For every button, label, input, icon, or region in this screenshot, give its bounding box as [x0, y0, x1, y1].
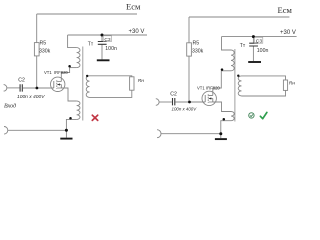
wire C3 stem top left [101, 35, 103, 41]
ground main right [215, 138, 227, 140]
transistor VT1 body circle [51, 77, 65, 91]
polarity dot lower winding right [223, 118, 226, 121]
resistor Rn load right [283, 80, 287, 90]
svg-text:Rн: Rн [289, 81, 296, 87]
capacitor C3 plates left [98, 42, 107, 45]
wire source lead right [213, 102, 231, 112]
wire upper winding bottom lead [70, 67, 77, 69]
mark correct green check [260, 112, 267, 118]
wire R5 bottom lead right [188, 56, 190, 102]
polarity dot secondary left [86, 75, 88, 77]
transformer T1 primary upper winding [77, 48, 80, 68]
svg-text:100n x 400V: 100n x 400V [17, 94, 45, 100]
mark wrong X [92, 115, 97, 120]
resistor R5 [34, 43, 39, 56]
wire Есм rail left [37, 13, 137, 15]
svg-text:Есм: Есм [278, 5, 293, 15]
wire load bottom return [90, 90, 132, 97]
svg-text:VT1: VT1 [44, 70, 52, 75]
wire +30V rail left [68, 34, 147, 36]
wire input to C2 [7, 87, 20, 89]
svg-text:Rн: Rн [138, 78, 145, 84]
svg-text:Есм: Есм [126, 2, 141, 12]
node C3 rail left [101, 34, 104, 37]
svg-text:100n x 400V: 100n x 400V [172, 107, 198, 112]
node ground junction left [65, 129, 68, 132]
capacitor C2 plates right [173, 98, 175, 105]
wire drain connection [61, 68, 69, 82]
wire ground stem left [65, 130, 67, 137]
svg-text:330k: 330k [39, 48, 51, 54]
svg-text:R5: R5 [40, 40, 47, 46]
transformer T2 core [234, 49, 236, 122]
svg-text:VT1: VT1 [197, 86, 205, 91]
ground C3 right [248, 61, 261, 63]
wire R5 top lead right [188, 17, 190, 43]
node gate right [188, 101, 191, 104]
svg-text:Тт: Тт [240, 43, 246, 49]
wire lower winding bottom lead [66, 119, 76, 130]
svg-text:100n: 100n [257, 48, 269, 54]
svg-text:100n: 100n [105, 46, 117, 52]
node C3 rail right [252, 35, 255, 38]
wire C3 stem top right [252, 37, 254, 44]
wire secondary top rail to load [90, 76, 132, 77]
node ground junction right [219, 132, 222, 135]
svg-text:+30 V: +30 V [280, 30, 296, 36]
input terminal top left [4, 85, 7, 92]
resistor R5 right [187, 43, 192, 56]
wire source lead [61, 88, 76, 101]
polarity dot secondary right [237, 75, 239, 77]
label C3 box left [103, 36, 111, 42]
transformer T1 secondary winding [86, 76, 89, 98]
transistor VT1 substrate arrow right [209, 97, 212, 99]
transformer T1 core [82, 47, 84, 121]
polarity dot upper winding right [221, 68, 224, 71]
svg-text:IRF820: IRF820 [54, 70, 68, 75]
svg-text:IRF820: IRF820 [206, 86, 220, 91]
wire input to C2 right [159, 101, 172, 103]
wire C2 to gate right [175, 101, 205, 103]
svg-text:330k: 330k [192, 48, 204, 54]
ground main left [60, 138, 72, 140]
ground C3 left [97, 59, 110, 61]
wire C2 to gate [23, 87, 54, 89]
svg-text:Вход: Вход [4, 103, 16, 110]
svg-text:C2: C2 [170, 92, 177, 98]
input terminal bottom right [157, 130, 161, 138]
wire lower winding bottom lead right [221, 121, 231, 134]
wire R5 bottom lead to gate node [36, 56, 38, 88]
transistor VT1 internals right [205, 94, 213, 103]
wire input low to ground node [8, 129, 67, 131]
wire secondary top rail right [242, 76, 286, 80]
wire +30V rail right [222, 36, 297, 38]
svg-text:R5: R5 [193, 40, 200, 46]
wire input low right [161, 133, 221, 135]
wire drain connection right [213, 71, 222, 96]
transformer T2 feedback lower winding [231, 112, 234, 121]
transformer T1 feedback lower winding [77, 101, 80, 119]
wire load bottom return right [242, 90, 286, 96]
label C3 box right [255, 37, 263, 43]
capacitor C3 plates right [249, 43, 258, 46]
capacitor C2 plates left [20, 84, 22, 91]
polarity dot lower winding left [69, 117, 72, 120]
wire R5 top lead [36, 14, 38, 43]
svg-text:Тт: Тт [88, 42, 94, 48]
svg-text:C3: C3 [256, 39, 263, 45]
node gate left [36, 87, 39, 90]
resistor Rn load left [130, 77, 134, 90]
wire ground stem right [220, 134, 222, 138]
svg-text:C3: C3 [104, 37, 111, 43]
transistor VT1 substrate arrow left [57, 83, 60, 85]
wire Есм rail right [189, 16, 289, 18]
wire upper winding bottom lead right [221, 70, 231, 72]
transformer T2 secondary winding [238, 76, 241, 96]
wire +30V drop right [222, 37, 232, 50]
wire +30V drop to winding [68, 35, 77, 48]
input terminal bottom left [4, 127, 8, 135]
wire C3 stem bottom right [252, 46, 254, 61]
transformer T2 primary upper winding [231, 50, 234, 71]
input terminal top right [156, 99, 159, 106]
mark emoji circled check [249, 113, 254, 118]
transistor VT1 body circle right [202, 91, 216, 105]
svg-text:+30 V: +30 V [129, 29, 145, 35]
svg-text:C2: C2 [18, 78, 25, 84]
transistor VT1 internals left [54, 80, 62, 89]
polarity dot upper winding left [68, 65, 71, 68]
wire C3 stem bottom left [101, 44, 103, 59]
